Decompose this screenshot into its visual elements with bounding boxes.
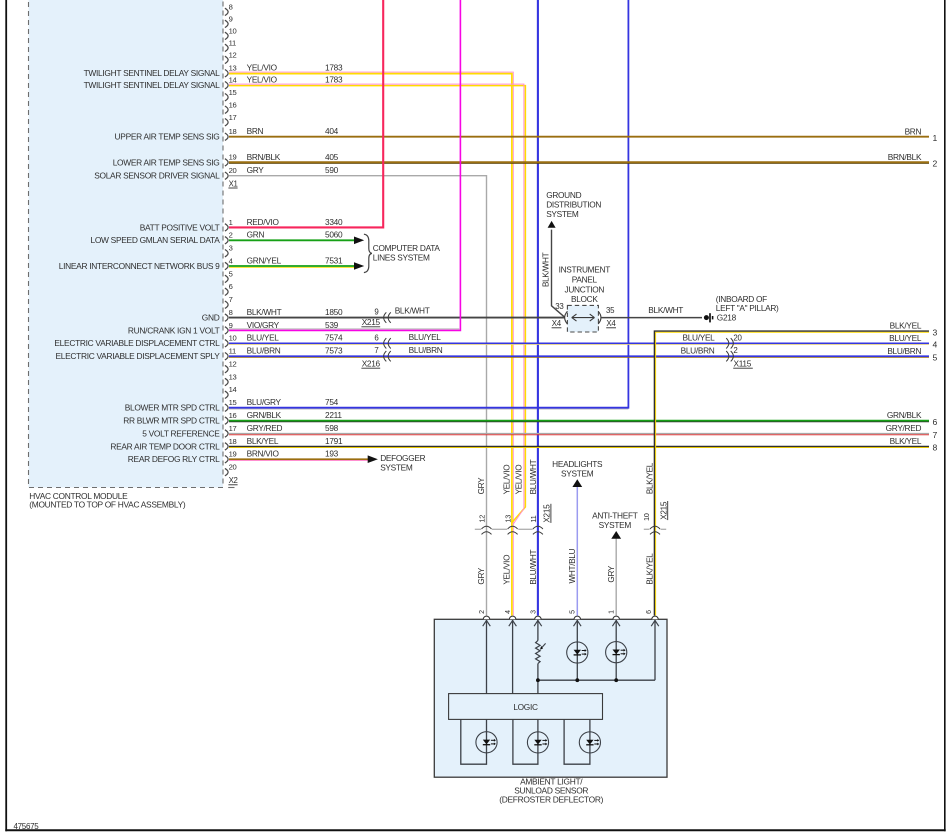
svg-text:BLK/WHT: BLK/WHT: [648, 305, 683, 315]
svg-text:13: 13: [229, 372, 237, 381]
svg-text:BLOCK: BLOCK: [571, 294, 598, 304]
svg-text:11: 11: [229, 347, 236, 356]
svg-text:BLU/YEL: BLU/YEL: [889, 333, 922, 343]
svg-text:20: 20: [733, 333, 742, 342]
svg-text:ELECTRIC VARIABLE DISPLACEMENT: ELECTRIC VARIABLE DISPLACEMENT SPLY: [55, 351, 220, 361]
svg-text:ANTI-THEFT: ANTI-THEFT: [592, 510, 638, 520]
svg-text:BLK/WHT: BLK/WHT: [395, 306, 430, 316]
svg-text:1783: 1783: [325, 75, 343, 85]
svg-text:BLK/YEL: BLK/YEL: [890, 321, 922, 331]
svg-text:18: 18: [229, 127, 237, 136]
svg-text:405: 405: [325, 152, 339, 162]
svg-text:YEL/VIO: YEL/VIO: [247, 75, 278, 85]
svg-text:BLU/GRY: BLU/GRY: [247, 397, 282, 407]
svg-text:7: 7: [933, 430, 938, 440]
svg-text:GRN/BLK: GRN/BLK: [247, 410, 282, 420]
svg-text:GRY: GRY: [477, 477, 486, 495]
svg-text:8: 8: [229, 308, 233, 317]
svg-text:10: 10: [229, 334, 237, 343]
svg-text:GRY/RED: GRY/RED: [886, 423, 922, 433]
svg-text:18: 18: [229, 437, 237, 446]
svg-text:SYSTEM: SYSTEM: [546, 209, 579, 219]
svg-text:5060: 5060: [325, 230, 343, 240]
svg-text:BLU/YEL: BLU/YEL: [409, 332, 442, 342]
svg-text:X4: X4: [552, 319, 562, 328]
svg-text:X2: X2: [229, 476, 238, 485]
svg-text:5: 5: [933, 353, 938, 363]
svg-text:VIO/GRY: VIO/GRY: [247, 320, 280, 330]
svg-text:(MOUNTED TO TOP OF HVAC ASSEMB: (MOUNTED TO TOP OF HVAC ASSEMBLY): [29, 500, 186, 510]
svg-text:539: 539: [325, 320, 339, 330]
svg-text:475675: 475675: [14, 822, 40, 831]
svg-text:LOGIC: LOGIC: [513, 702, 538, 712]
svg-text:6: 6: [933, 417, 938, 427]
svg-text:BLK/WHT: BLK/WHT: [247, 307, 282, 317]
svg-text:GRY: GRY: [607, 565, 616, 583]
svg-text:GRN/BLK: GRN/BLK: [887, 410, 922, 420]
svg-text:19: 19: [229, 450, 237, 459]
svg-text:3: 3: [229, 244, 233, 253]
svg-text:YEL/VIO: YEL/VIO: [503, 465, 512, 495]
svg-text:BRN: BRN: [905, 126, 922, 136]
svg-text:BLU/YEL: BLU/YEL: [247, 333, 280, 343]
svg-text:X215: X215: [543, 504, 552, 523]
svg-text:SOLAR SENSOR DRIVER SIGNAL: SOLAR SENSOR DRIVER SIGNAL: [94, 171, 220, 181]
svg-text:2: 2: [229, 231, 233, 240]
svg-text:33: 33: [555, 302, 564, 311]
svg-text:16: 16: [229, 101, 237, 110]
svg-text:LEFT "A" PILLAR): LEFT "A" PILLAR): [716, 303, 779, 313]
svg-text:12: 12: [229, 360, 237, 369]
svg-text:35: 35: [606, 306, 615, 315]
svg-text:2: 2: [933, 159, 938, 169]
svg-text:BLU/YEL: BLU/YEL: [682, 333, 715, 343]
svg-text:RED/VIO: RED/VIO: [247, 217, 280, 227]
svg-text:LOWER AIR TEMP SENS SIG: LOWER AIR TEMP SENS SIG: [113, 157, 220, 167]
svg-text:INSTRUMENT: INSTRUMENT: [559, 264, 611, 274]
svg-text:3: 3: [530, 610, 537, 614]
svg-text:590: 590: [325, 165, 339, 175]
svg-text:LOW SPEED GMLAN SERIAL DATA: LOW SPEED GMLAN SERIAL DATA: [90, 235, 220, 245]
svg-text:REAR AIR TEMP DOOR CTRL: REAR AIR TEMP DOOR CTRL: [110, 441, 220, 451]
svg-text:3: 3: [933, 327, 938, 337]
svg-text:SYSTEM: SYSTEM: [380, 462, 413, 472]
svg-text:(DEFROSTER DEFLECTOR): (DEFROSTER DEFLECTOR): [499, 795, 603, 805]
svg-text:7: 7: [374, 346, 378, 355]
svg-text:BLU/BRN: BLU/BRN: [409, 345, 443, 355]
svg-text:X215: X215: [659, 501, 668, 520]
svg-text:10: 10: [642, 513, 651, 521]
svg-text:20: 20: [229, 463, 237, 472]
svg-text:20: 20: [229, 166, 237, 175]
svg-text:404: 404: [325, 126, 339, 136]
svg-text:1850: 1850: [325, 307, 343, 317]
svg-text:11: 11: [229, 39, 236, 48]
svg-text:16: 16: [229, 411, 237, 420]
svg-text:14: 14: [229, 75, 237, 84]
svg-text:2: 2: [479, 610, 486, 614]
svg-text:BLU/WHT: BLU/WHT: [529, 459, 538, 494]
svg-text:BRN/BLK: BRN/BLK: [888, 152, 922, 162]
svg-text:BATT POSITIVE VOLT: BATT POSITIVE VOLT: [140, 222, 220, 232]
svg-text:G218: G218: [717, 313, 737, 323]
svg-text:15: 15: [229, 88, 237, 97]
svg-text:4: 4: [229, 256, 233, 265]
svg-text:7574: 7574: [325, 333, 343, 343]
svg-text:1783: 1783: [325, 63, 343, 73]
svg-text:RR BLWR MTR SPD CTRL: RR BLWR MTR SPD CTRL: [123, 416, 220, 426]
svg-text:X216: X216: [362, 359, 381, 369]
svg-text:BLK/YEL: BLK/YEL: [645, 462, 654, 494]
svg-text:1791: 1791: [325, 436, 343, 446]
svg-text:17: 17: [229, 424, 237, 433]
svg-text:TWILIGHT SENTINEL DELAY SIGNAL: TWILIGHT SENTINEL DELAY SIGNAL: [84, 80, 221, 90]
svg-text:X4: X4: [606, 319, 616, 328]
svg-text:X215: X215: [362, 317, 381, 327]
svg-text:COMPUTER DATA: COMPUTER DATA: [373, 243, 441, 253]
svg-text:8: 8: [933, 443, 938, 453]
svg-text:BLK/YEL: BLK/YEL: [890, 436, 922, 446]
svg-text:LINES SYSTEM: LINES SYSTEM: [373, 252, 430, 262]
svg-text:BRN/VIO: BRN/VIO: [247, 449, 280, 459]
svg-text:13: 13: [229, 63, 237, 72]
svg-text:YEL/VIO: YEL/VIO: [503, 555, 512, 585]
svg-text:BLK/WHT: BLK/WHT: [542, 252, 551, 287]
svg-text:7573: 7573: [325, 346, 343, 356]
svg-text:BRN/BLK: BRN/BLK: [247, 152, 281, 162]
svg-text:1: 1: [933, 133, 938, 143]
svg-text:BLK/YEL: BLK/YEL: [645, 553, 654, 585]
svg-text:GRN: GRN: [247, 230, 265, 240]
svg-text:ELECTRIC VARIABLE DISPLACEMENT: ELECTRIC VARIABLE DISPLACEMENT CTRL: [54, 338, 220, 348]
svg-text:6: 6: [229, 282, 233, 291]
svg-text:598: 598: [325, 423, 339, 433]
svg-text:7531: 7531: [325, 255, 343, 265]
svg-text:SYSTEM: SYSTEM: [599, 520, 632, 530]
svg-text:9: 9: [374, 308, 379, 317]
svg-text:BLU/BRN: BLU/BRN: [681, 346, 715, 356]
svg-text:GRY/RED: GRY/RED: [247, 423, 283, 433]
svg-text:10: 10: [229, 27, 237, 36]
svg-text:UPPER AIR TEMP SENS SIG: UPPER AIR TEMP SENS SIG: [115, 132, 220, 142]
svg-text:14: 14: [229, 385, 237, 394]
svg-text:BLOWER MTR SPD CTRL: BLOWER MTR SPD CTRL: [125, 403, 220, 413]
svg-text:X1: X1: [229, 179, 238, 188]
svg-text:GRY: GRY: [477, 567, 486, 585]
svg-text:6: 6: [374, 333, 379, 342]
svg-text:YEL/VIO: YEL/VIO: [247, 63, 278, 73]
svg-text:WHT/BLU: WHT/BLU: [568, 548, 577, 583]
svg-text:8: 8: [229, 3, 233, 12]
svg-text:12: 12: [229, 51, 237, 60]
svg-text:BLU/BRN: BLU/BRN: [247, 346, 281, 356]
svg-text:17: 17: [229, 113, 237, 122]
svg-text:11: 11: [529, 515, 538, 522]
svg-text:5: 5: [570, 610, 577, 614]
svg-text:15: 15: [229, 398, 237, 407]
svg-text:6: 6: [646, 610, 653, 614]
svg-text:PANEL: PANEL: [572, 274, 598, 284]
svg-text:BLU/BRN: BLU/BRN: [887, 346, 921, 356]
svg-text:754: 754: [325, 397, 339, 407]
svg-text:3340: 3340: [325, 217, 343, 227]
svg-text:5: 5: [229, 269, 233, 278]
svg-text:GRY: GRY: [247, 165, 265, 175]
svg-text:12: 12: [478, 515, 487, 523]
svg-text:BRN: BRN: [247, 126, 264, 136]
svg-text:19: 19: [229, 153, 237, 162]
svg-text:4: 4: [933, 340, 938, 350]
svg-text:13: 13: [504, 515, 513, 523]
svg-text:2211: 2211: [325, 410, 342, 420]
svg-text:7: 7: [229, 295, 233, 304]
svg-text:1: 1: [229, 218, 233, 227]
svg-text:GND: GND: [202, 313, 220, 323]
svg-text:RUN/CRANK IGN 1 VOLT: RUN/CRANK IGN 1 VOLT: [128, 325, 220, 335]
svg-text:5 VOLT REFERENCE: 5 VOLT REFERENCE: [142, 428, 220, 438]
svg-text:2: 2: [733, 346, 737, 355]
svg-text:BLK/YEL: BLK/YEL: [247, 436, 279, 446]
svg-text:1: 1: [609, 610, 616, 614]
svg-text:SYSTEM: SYSTEM: [561, 469, 594, 479]
svg-text:BLU/WHT: BLU/WHT: [529, 550, 538, 585]
svg-text:HEADLIGHTS: HEADLIGHTS: [552, 459, 603, 469]
svg-text:193: 193: [325, 449, 339, 459]
svg-text:TWILIGHT SENTINEL DELAY SIGNAL: TWILIGHT SENTINEL DELAY SIGNAL: [84, 68, 221, 78]
svg-text:4: 4: [505, 610, 512, 614]
svg-text:9: 9: [229, 321, 233, 330]
svg-text:X115: X115: [734, 359, 752, 369]
svg-text:9: 9: [229, 15, 233, 24]
svg-text:LINEAR INTERCONNECT NETWORK BU: LINEAR INTERCONNECT NETWORK BUS 9: [59, 261, 220, 271]
svg-text:GRN/YEL: GRN/YEL: [247, 255, 282, 265]
svg-text:REAR DEFOG RLY CTRL: REAR DEFOG RLY CTRL: [128, 454, 220, 464]
svg-text:YEL/VIO: YEL/VIO: [514, 465, 523, 495]
